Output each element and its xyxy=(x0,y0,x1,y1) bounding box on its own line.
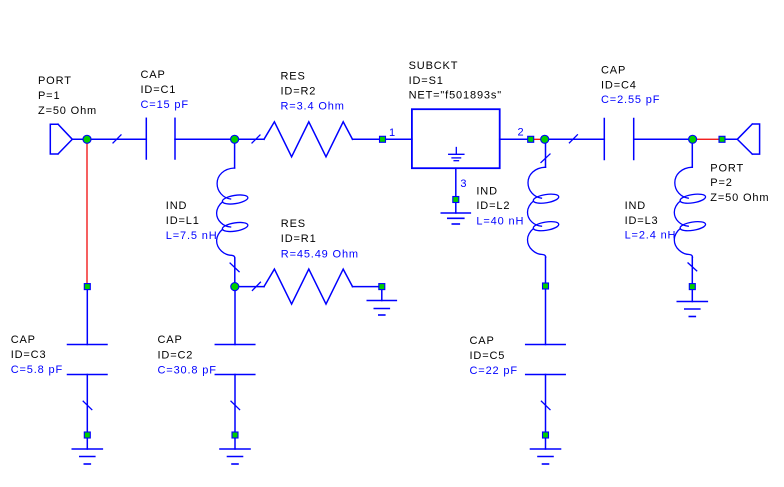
label CAP C1 xyxy=(141,69,189,111)
wire C2 node to cap xyxy=(234,287,236,345)
wire node down to L2 xyxy=(545,139,547,167)
node C4-L3-port2 junction xyxy=(689,135,697,143)
svg-text:ID=L3: ID=L3 xyxy=(625,215,659,227)
svg-text:IND: IND xyxy=(625,200,647,212)
wire node down to L3 xyxy=(691,139,693,167)
pin square port2 xyxy=(719,136,725,142)
pin square R1 ground xyxy=(379,284,385,290)
label PORT P2 xyxy=(710,163,769,205)
ground stub C2 xyxy=(234,439,236,449)
ground stub C5 xyxy=(545,439,547,449)
label RES R2 xyxy=(281,71,345,113)
ground L3 xyxy=(677,302,707,317)
svg-text:PORT: PORT xyxy=(710,163,744,175)
wire C1 to node xyxy=(175,138,235,140)
subckt U1 box xyxy=(412,109,500,168)
capacitor C4 xyxy=(604,119,633,160)
ground pin3 xyxy=(441,213,470,224)
slash on C5 bottom xyxy=(541,401,550,409)
svg-text:1: 1 xyxy=(389,127,396,139)
wire L1 bottom to node xyxy=(234,258,236,287)
svg-text:C=22 pF: C=22 pF xyxy=(470,365,518,377)
ground C2 xyxy=(220,449,250,464)
svg-text:L=40 nH: L=40 nH xyxy=(476,216,524,228)
pin square C5 bottom xyxy=(543,432,549,438)
wire C4 to node xyxy=(634,138,693,140)
ground C3 xyxy=(72,449,102,464)
slash on node-C4 wire xyxy=(569,135,577,143)
svg-text:C=30.8 pF: C=30.8 pF xyxy=(158,365,217,377)
svg-text:ID=L2: ID=L2 xyxy=(476,200,510,212)
svg-text:ID=C4: ID=C4 xyxy=(601,80,637,92)
label IND L2 xyxy=(476,186,524,228)
label PORT P1 xyxy=(38,75,97,117)
svg-text:Z=50 Ohm: Z=50 Ohm xyxy=(38,105,97,117)
svg-text:L=7.5 nH: L=7.5 nH xyxy=(166,230,218,242)
svg-text:2: 2 xyxy=(518,127,525,139)
svg-text:3: 3 xyxy=(460,178,467,190)
ground stub C3 xyxy=(86,439,88,449)
pin square C3 bottom xyxy=(84,432,90,438)
svg-text:C=2.55 pF: C=2.55 pF xyxy=(601,94,660,106)
node L1-R1-C2 junction xyxy=(231,283,239,291)
slash on L2 top xyxy=(541,154,550,163)
svg-text:ID=C5: ID=C5 xyxy=(470,350,506,362)
label IND L3 xyxy=(625,200,677,242)
svg-text:CAP: CAP xyxy=(601,65,626,77)
wire C3 to ground square xyxy=(86,375,88,432)
svg-text:RES: RES xyxy=(281,71,306,83)
wire node to R1 xyxy=(235,286,264,288)
node at port1 xyxy=(83,135,91,143)
svg-text:ID=C3: ID=C3 xyxy=(11,349,47,361)
svg-text:C=15 pF: C=15 pF xyxy=(141,99,189,111)
label RES R1 xyxy=(281,218,359,261)
node C1-L1-R2 junction xyxy=(231,135,239,143)
slash on L1 bottom xyxy=(230,263,239,272)
ground R1 xyxy=(367,301,396,316)
slash on R2 lead xyxy=(252,135,260,143)
wire C2 to ground square xyxy=(234,375,236,432)
svg-text:NET="f501893s": NET="f501893s" xyxy=(409,90,502,102)
inductor L3 coil xyxy=(674,167,706,257)
svg-text:RES: RES xyxy=(281,218,306,230)
pin square subckt pin1 xyxy=(380,136,386,142)
svg-text:R=3.4 Ohm: R=3.4 Ohm xyxy=(281,101,345,113)
slash on wire port1-C1 xyxy=(113,135,121,143)
port P2 symbol xyxy=(737,124,759,154)
pin square L3 ground xyxy=(689,284,695,290)
wire subckt pin3 xyxy=(455,168,457,199)
wire R2 to subckt pin1 xyxy=(353,138,412,140)
ground C5 xyxy=(531,449,561,464)
svg-text:CAP: CAP xyxy=(141,69,166,81)
svg-text:C=5.8 pF: C=5.8 pF xyxy=(11,364,63,376)
svg-text:ID=R2: ID=R2 xyxy=(281,86,317,98)
pin square subckt pin3 xyxy=(453,197,459,203)
pin square C2 bottom xyxy=(232,432,238,438)
wire red pin2 to node xyxy=(531,138,545,140)
pin square C3 top xyxy=(84,284,90,290)
svg-text:P=1: P=1 xyxy=(38,90,60,102)
svg-text:ID=L1: ID=L1 xyxy=(166,215,200,227)
wire red node to port2 xyxy=(693,138,722,140)
svg-text:CAP: CAP xyxy=(11,334,36,346)
svg-text:IND: IND xyxy=(166,200,188,212)
label IND L1 xyxy=(166,200,218,242)
pin square subckt pin2 xyxy=(528,136,534,142)
capacitor C5 xyxy=(526,345,566,375)
svg-text:P=2: P=2 xyxy=(710,177,732,189)
wire node to C4 xyxy=(545,138,605,140)
capacitor C3 xyxy=(68,345,108,375)
ground stub L3 xyxy=(691,290,693,302)
wire C5 square to cap xyxy=(545,290,547,345)
ground stub pin3 xyxy=(455,203,457,213)
svg-text:CAP: CAP xyxy=(470,335,495,347)
inductor L1 coil xyxy=(217,168,249,258)
svg-text:ID=R1: ID=R1 xyxy=(281,233,317,245)
wire C3 square to cap xyxy=(86,290,88,345)
port P1 symbol xyxy=(50,124,83,154)
wire red port1 node to C3 xyxy=(86,139,88,286)
capacitor C1 xyxy=(146,118,175,159)
wire L2 bottom to C5 square xyxy=(545,257,547,286)
label CAP C3 xyxy=(11,334,63,376)
svg-text:SUBCKT: SUBCKT xyxy=(409,60,459,72)
inductor L2 coil xyxy=(528,167,560,257)
resistor R2 xyxy=(264,122,353,157)
node pin2-L2-C4 junction xyxy=(541,135,549,143)
slash on L3 bottom xyxy=(688,263,697,271)
wire port1 node to C1 xyxy=(87,138,146,140)
ground symbol inside subckt xyxy=(449,148,464,161)
svg-text:L=2.4 nH: L=2.4 nH xyxy=(625,230,677,242)
svg-text:R=45.49 Ohm: R=45.49 Ohm xyxy=(281,249,359,261)
wire L3 bottom to square xyxy=(691,257,693,286)
slash on C2 bottom xyxy=(231,401,240,409)
wire C5 to ground square xyxy=(545,375,547,432)
capacitor C2 xyxy=(215,345,255,375)
ground stub R1 xyxy=(381,287,383,301)
svg-text:Z=50 Ohm: Z=50 Ohm xyxy=(710,192,769,204)
resistor R1 xyxy=(264,269,353,304)
wire node down to L1 xyxy=(234,139,236,168)
label CAP C2 xyxy=(158,334,217,377)
svg-text:ID=S1: ID=S1 xyxy=(409,75,444,87)
label CAP C4 xyxy=(601,65,660,107)
slash on C3 bottom xyxy=(83,401,92,409)
pin square C5 top xyxy=(543,283,549,289)
wire port2 square to port symbol xyxy=(722,138,737,140)
svg-text:CAP: CAP xyxy=(158,334,183,346)
svg-text:ID=C2: ID=C2 xyxy=(158,350,194,362)
svg-text:PORT: PORT xyxy=(38,75,72,87)
label SUBCKT S1 xyxy=(409,60,502,102)
wire R1 to ground square xyxy=(353,286,382,288)
slash on R1 lead xyxy=(252,282,260,290)
wire node to R2 xyxy=(235,138,264,140)
svg-text:ID=C1: ID=C1 xyxy=(141,84,177,96)
wire subckt pin2 xyxy=(500,138,531,140)
label CAP C5 xyxy=(470,335,518,377)
svg-text:IND: IND xyxy=(476,186,498,198)
